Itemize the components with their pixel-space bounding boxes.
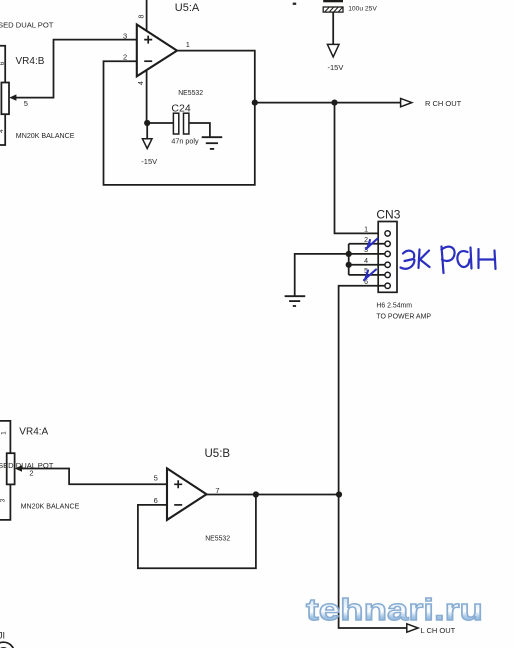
- svg-text:3: 3: [123, 31, 127, 40]
- label SED DUAL POT (top): [0, 20, 54, 29]
- svg-text:CN3: CN3: [376, 208, 400, 222]
- svg-text:1: 1: [186, 40, 190, 49]
- label -15V (U5:A): [141, 157, 157, 166]
- connector CN3: [378, 222, 397, 293]
- label SED DUAL POT (bottom): [0, 461, 54, 470]
- label VR4:B: [16, 56, 45, 67]
- pin number 6: [154, 496, 158, 505]
- wire bus to ground: [295, 254, 349, 296]
- label R CH OUT: [425, 99, 462, 108]
- pin number 1: [364, 226, 368, 233]
- blue tick pin 5 (handwritten): [364, 270, 376, 281]
- wire R branch down to CN3 pin 1: [335, 103, 385, 234]
- svg-text:tehnari.ru: tehnari.ru: [306, 592, 483, 627]
- capacitor C24: [147, 113, 189, 134]
- label 100u 25V: [348, 5, 377, 12]
- svg-text:JI: JI: [0, 631, 5, 641]
- svg-text:SED DUAL POT: SED DUAL POT: [0, 20, 54, 29]
- label NE5532 (U5:B): [205, 536, 230, 543]
- wire U5:B output: [207, 494, 340, 496]
- wire CN3 pin 4 stub: [349, 264, 385, 266]
- svg-text:5: 5: [154, 473, 158, 482]
- svg-text:1: 1: [1, 431, 8, 435]
- pin 8 wire (U5:A V+): [146, 0, 148, 31]
- node U5:A pin4 / -15V junction: [144, 120, 150, 126]
- svg-text:1: 1: [364, 226, 368, 233]
- blue tick pin 2 (handwritten): [366, 239, 378, 250]
- pin number 4 (rotated): [138, 81, 145, 85]
- power -15V arrow (top right): [327, 44, 339, 57]
- handwritten note "экран" (blue ink): [401, 247, 496, 274]
- label 47n poly: [171, 137, 199, 146]
- svg-text:4: 4: [0, 129, 5, 133]
- wire R CH OUT: [255, 102, 401, 104]
- wire VR4:A bottom pin to left edge: [0, 484, 10, 520]
- pin number 8 (rotated): [139, 14, 146, 18]
- wire C24 to ground: [189, 123, 210, 137]
- pin number 2: [123, 53, 127, 62]
- pin number 7: [215, 486, 219, 495]
- svg-text:2: 2: [123, 53, 127, 62]
- svg-text:6: 6: [0, 61, 6, 65]
- svg-text:100u 25V: 100u 25V: [348, 5, 377, 12]
- label NE5532 (U5:A): [178, 90, 203, 97]
- pin number 1: [186, 40, 190, 49]
- svg-text:3: 3: [0, 498, 6, 502]
- svg-text:6: 6: [154, 496, 158, 505]
- svg-text:4: 4: [364, 258, 368, 265]
- svg-text:2: 2: [364, 237, 368, 244]
- arrow R CH OUT: [401, 98, 412, 106]
- pin 4 wire (U5:A V-): [146, 70, 148, 123]
- capacitor 100u 25V (top right): [323, 0, 343, 12]
- label H6 2.54mm: [376, 303, 412, 310]
- pin number 2 (VR4:A wiper): [29, 469, 33, 478]
- svg-text:R CH OUT: R CH OUT: [425, 99, 462, 108]
- pin number 5: [364, 268, 368, 275]
- op-amp U5:B: [167, 468, 207, 520]
- label -15V (top right): [328, 63, 344, 72]
- svg-text:47n poly: 47n poly: [171, 137, 199, 146]
- svg-text:U5:A: U5:A: [175, 2, 200, 14]
- watermark tehnari.ru: [306, 592, 483, 627]
- svg-text:NE5532: NE5532: [205, 536, 230, 543]
- svg-text:MN20K BALANCE: MN20K BALANCE: [16, 132, 75, 140]
- op-amp U5:A: [137, 25, 177, 77]
- polarity mark: [293, 3, 297, 5]
- svg-text:4: 4: [138, 81, 145, 85]
- wire U5:A feedback loop: [104, 51, 255, 185]
- svg-text:U5:B: U5:B: [205, 448, 231, 460]
- label L CH OUT: [421, 626, 456, 635]
- svg-text:7: 7: [215, 486, 219, 495]
- pin number 4 (VR4:B bottom, rotated): [0, 129, 5, 133]
- svg-text:VR4:B: VR4:B: [16, 56, 45, 67]
- svg-text:MN20K BALANCE: MN20K BALANCE: [21, 503, 80, 511]
- pin number 6: [364, 279, 368, 286]
- node R branch to CN3: [331, 100, 337, 106]
- svg-text:-15V: -15V: [141, 157, 157, 166]
- potentiometer VR4:A: [7, 453, 22, 484]
- wire VR4:B wiper to U5:A pin 3: [13, 40, 137, 98]
- wire CN3 pins 2-5 bus: [348, 244, 350, 275]
- wire U5:B feedback loop: [138, 495, 256, 569]
- label MN20K BALANCE (top): [16, 132, 75, 140]
- power -15V arrow (U5:A): [142, 123, 152, 149]
- svg-text:8: 8: [139, 14, 146, 18]
- svg-text:5: 5: [24, 99, 28, 108]
- pin number 4: [364, 258, 368, 265]
- wire VR4:A wiper to U5:B pin 5: [19, 469, 167, 485]
- svg-text:NE5532: NE5532: [178, 90, 203, 97]
- wire CN3 pin 6 down to L CH OUT: [339, 286, 407, 628]
- label U5:A: [175, 2, 200, 14]
- svg-text:-15V: -15V: [328, 63, 344, 72]
- svg-text:TO POWER AMP: TO POWER AMP: [376, 313, 431, 320]
- label C24: [171, 102, 190, 114]
- pin number 3: [123, 31, 127, 40]
- pin number 1 (VR4:A top, rotated): [1, 431, 8, 435]
- svg-text:SED DUAL POT: SED DUAL POT: [0, 461, 54, 470]
- svg-text:2: 2: [29, 469, 33, 478]
- potentiometer VR4:B: [1, 83, 16, 115]
- node L branch: [336, 491, 342, 497]
- pin number 5: [154, 473, 158, 482]
- connector J1 (RCA jack, bottom left corner): [0, 631, 14, 648]
- svg-text:C24: C24: [171, 102, 190, 114]
- label VR4:A: [19, 427, 48, 438]
- wire cap to -15V arrow: [332, 12, 334, 44]
- label MN20K BALANCE (bottom): [21, 503, 80, 511]
- pin number 5 (VR4:B wiper): [24, 99, 28, 108]
- arrow L CH OUT: [407, 624, 418, 632]
- wire VR4:B top pin to left edge: [0, 46, 5, 83]
- node bus pin 4: [346, 262, 352, 268]
- node U5:B feedback tap: [253, 491, 259, 497]
- label CN3: [376, 208, 400, 222]
- wire CN3 pin 5 stub: [349, 274, 385, 276]
- svg-text:VR4:A: VR4:A: [19, 427, 48, 438]
- pin number 3: [364, 247, 368, 254]
- pin number 2: [364, 237, 368, 244]
- label U5:B: [205, 448, 231, 460]
- ground (CN3): [285, 296, 306, 306]
- node bus pin 3: [346, 251, 352, 257]
- pin number 3 (VR4:A bottom, rotated): [0, 498, 6, 502]
- ground (C24): [202, 137, 223, 149]
- wire CN3 pin 2 stub: [349, 243, 385, 245]
- label TO POWER AMP: [376, 313, 431, 320]
- wire VR4:B bottom pin to left edge: [0, 114, 5, 145]
- wire CN3 pin 3 stub: [349, 253, 385, 255]
- pin number 6 (VR4:B top, rotated): [0, 61, 6, 65]
- svg-text:H6 2.54mm: H6 2.54mm: [376, 303, 412, 310]
- svg-text:L CH OUT: L CH OUT: [421, 626, 456, 635]
- node U5:A output tap: [252, 100, 258, 106]
- wire VR4:A top pin to left edge: [0, 421, 10, 453]
